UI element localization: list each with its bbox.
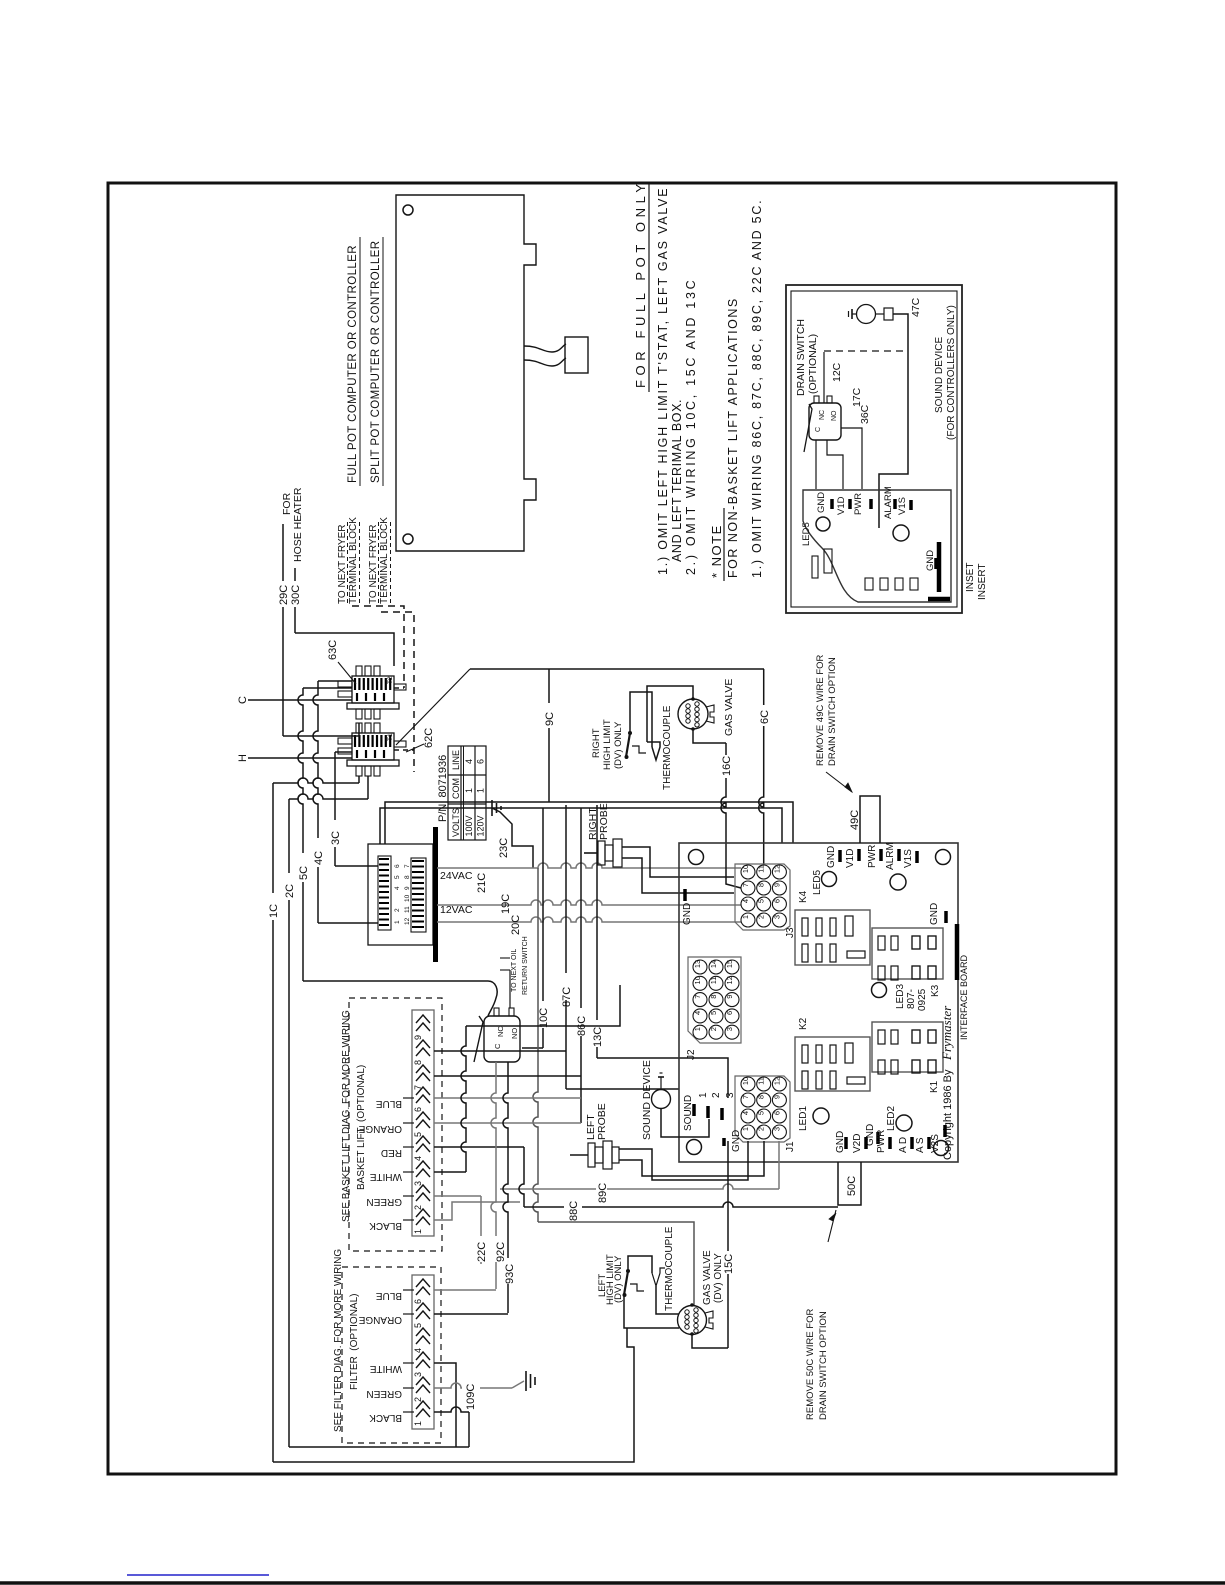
svg-text:9: 9 <box>725 995 734 999</box>
svg-text:HIGH LIMIT: HIGH LIMIT <box>602 719 613 770</box>
board top pad PWR <box>879 849 883 861</box>
svg-text:7: 7 <box>741 883 750 887</box>
svg-text:LED2: LED2 <box>886 1106 897 1131</box>
svg-text:20C: 20C <box>510 915 522 935</box>
wire WHITE riser <box>461 1026 466 1172</box>
svg-text:1: 1 <box>413 1421 423 1426</box>
svg-text:10C: 10C <box>538 1008 550 1028</box>
svg-text:NO: NO <box>510 1028 519 1039</box>
svg-text:2: 2 <box>711 1092 722 1098</box>
svg-text:8: 8 <box>709 995 718 999</box>
svg-text:2: 2 <box>709 1027 718 1031</box>
inset dashed option wire <box>824 350 908 352</box>
svg-text:9: 9 <box>772 1095 781 1099</box>
svg-text:12: 12 <box>772 1077 781 1085</box>
pad SOUND 2 <box>706 1106 710 1118</box>
board top pad V1D <box>857 849 861 861</box>
relay K2 <box>795 1037 870 1091</box>
svg-text:K3: K3 <box>930 984 941 997</box>
wire 13C <box>596 805 598 1058</box>
svg-text:0925: 0925 <box>917 988 928 1011</box>
svg-text:NC: NC <box>496 1026 505 1037</box>
filter wire WHITE drop <box>434 1363 456 1447</box>
svg-text:C: C <box>237 696 249 704</box>
svg-text:5: 5 <box>757 1111 766 1115</box>
svg-text:2: 2 <box>757 915 766 919</box>
svg-text:6C: 6C <box>759 710 771 724</box>
svg-text:V1S: V1S <box>897 497 908 515</box>
svg-text:6: 6 <box>476 759 486 764</box>
svg-text:19C: 19C <box>500 894 512 914</box>
basket wire pin7 to 86C <box>434 1075 581 1077</box>
pad GND near K1 <box>876 1132 880 1144</box>
LED circle top right <box>890 874 906 890</box>
interface board outline <box>679 843 958 1162</box>
transformer primary winding <box>378 856 391 930</box>
terminal block 63C <box>356 666 362 676</box>
svg-text:1.) OMIT WIRING 86C, 87C, 88C,: 1.) OMIT WIRING 86C, 87C, 88C, 89C, 22C … <box>750 199 764 578</box>
wire 93C <box>503 1062 508 1313</box>
right gas valve <box>678 699 708 729</box>
svg-text:9: 9 <box>404 886 411 890</box>
inset LED5 circle <box>816 517 830 531</box>
svg-text:Frymaster: Frymaster <box>939 1005 954 1061</box>
svg-text:49C: 49C <box>849 810 861 830</box>
svg-text:BLUE: BLUE <box>376 1290 402 1301</box>
svg-text:1: 1 <box>394 920 401 924</box>
svg-text:SEE BASKET LIFT DIAG. FOR MORE: SEE BASKET LIFT DIAG. FOR MORE WIRING <box>341 1010 352 1222</box>
svg-text:3: 3 <box>725 1027 734 1031</box>
svg-text:6: 6 <box>772 1111 781 1115</box>
svg-text:12VAC: 12VAC <box>440 904 473 916</box>
inset pad V1D <box>848 499 852 509</box>
svg-text:DRAIN SWITCH OPTION: DRAIN SWITCH OPTION <box>818 1311 829 1420</box>
svg-text:14: 14 <box>709 960 718 968</box>
transformer mounting bar <box>433 827 438 962</box>
svg-text:ORANGE: ORANGE <box>358 1314 402 1325</box>
wire 10C <box>542 808 544 1048</box>
svg-text:63C: 63C <box>327 640 339 660</box>
svg-text:DRAIN SWITCH: DRAIN SWITCH <box>795 319 807 396</box>
svg-text:TERMINAL BLOCK: TERMINAL BLOCK <box>348 517 359 604</box>
svg-text:T2: T2 <box>387 676 394 684</box>
inset sound component <box>875 313 884 315</box>
board hole top-right <box>936 850 951 865</box>
wire 87C <box>565 805 567 1089</box>
wire to oil switch pin <box>509 970 511 1008</box>
board top pad ALRM <box>897 849 901 861</box>
svg-text:11: 11 <box>404 906 411 913</box>
svg-text:5: 5 <box>413 1132 423 1137</box>
svg-text:LED5: LED5 <box>801 522 812 546</box>
terminal block 62C <box>356 723 362 733</box>
basket pin 3 <box>416 1161 430 1169</box>
svg-text:23C: 23C <box>498 838 510 858</box>
svg-text:2: 2 <box>757 1127 766 1131</box>
inset pad ALARM <box>893 499 897 509</box>
basket pin 7 <box>416 1065 430 1073</box>
wire 9C/6C top run <box>470 668 764 670</box>
left probe wire 2 <box>619 1141 764 1176</box>
wire 5C to oil switch <box>303 981 497 1016</box>
svg-text:3C: 3C <box>330 831 342 845</box>
inset drain microswitch <box>809 403 841 440</box>
wire 19C (12VAC) <box>437 900 741 905</box>
svg-text:PWR: PWR <box>876 1130 887 1153</box>
svg-text:87C: 87C <box>561 987 573 1007</box>
svg-text:(OPTIONAL): (OPTIONAL) <box>807 334 819 394</box>
left probe wire 1 <box>619 1141 748 1180</box>
svg-text:1: 1 <box>698 1092 709 1098</box>
wire 88C <box>524 1202 838 1207</box>
svg-text:1: 1 <box>693 1027 702 1031</box>
svg-text:GND: GND <box>731 1130 742 1152</box>
svg-text:PROBE: PROBE <box>598 803 610 840</box>
board bottom pad V2D <box>864 1137 868 1149</box>
relay K3 <box>872 928 943 979</box>
wire left high limit to valve <box>624 1295 679 1328</box>
svg-text:92C: 92C <box>495 1242 507 1262</box>
svg-text:LED5: LED5 <box>812 870 823 895</box>
svg-text:COM: COM <box>451 778 461 799</box>
svg-text:13C: 13C <box>592 1027 604 1047</box>
svg-text:GND: GND <box>816 492 827 513</box>
sound device circle <box>652 1090 671 1109</box>
svg-text:ORANGE: ORANGE <box>358 1123 402 1134</box>
basket wire pin8 to 87C <box>434 1050 566 1052</box>
connector J2 <box>688 957 741 1043</box>
wire 9C <box>548 669 550 802</box>
inset pad GND 2 <box>934 558 938 569</box>
svg-text:1: 1 <box>741 915 750 919</box>
ground symbol 109C <box>512 1381 524 1388</box>
svg-text:12: 12 <box>772 865 781 873</box>
wire 49C staple <box>860 796 880 843</box>
svg-text:6: 6 <box>413 1299 423 1304</box>
oil switch lever <box>474 1016 483 1062</box>
right probe wire 1 <box>622 847 734 877</box>
svg-text:T1: T1 <box>387 733 394 741</box>
svg-text:88C: 88C <box>568 1201 580 1221</box>
wire 86C <box>580 808 582 1123</box>
board right edge bar <box>955 924 960 980</box>
wire to left gas valve (via 1222) <box>533 868 538 1222</box>
svg-text:TO NEXT FRYER: TO NEXT FRYER <box>368 525 379 604</box>
transformer outline <box>368 844 433 945</box>
inset component b <box>824 549 832 573</box>
wire 4C to transformer <box>318 922 368 924</box>
svg-text:Copyright 1986 By: Copyright 1986 By <box>942 1069 954 1160</box>
svg-text:5: 5 <box>757 899 766 903</box>
svg-text:BLUE: BLUE <box>376 1098 402 1109</box>
svg-text:FILTER (OPTIONAL): FILTER (OPTIONAL) <box>349 1294 360 1391</box>
LED5 circle <box>822 872 837 887</box>
basket pin 1 <box>416 1209 430 1217</box>
wire 47C <box>893 314 908 351</box>
wire 4C <box>313 681 318 923</box>
svg-text:22C: 22C <box>476 1242 488 1262</box>
wire pair to J3 (upper) <box>385 802 793 844</box>
filter connector <box>412 1275 434 1429</box>
svg-text:6: 6 <box>772 899 781 903</box>
svg-text:4: 4 <box>413 1348 423 1353</box>
wire 29C <box>282 524 284 736</box>
thermocouple right symbol <box>647 742 660 760</box>
filter pin 1 <box>416 1401 430 1409</box>
svg-text:89C: 89C <box>597 1183 609 1203</box>
svg-text:4: 4 <box>413 1156 423 1161</box>
svg-text:GND: GND <box>835 1131 846 1153</box>
LED1 circle <box>813 1108 829 1124</box>
svg-text:3: 3 <box>413 1181 423 1186</box>
right probe symbol <box>584 852 598 854</box>
svg-text:INSET: INSET <box>965 563 976 592</box>
wire 3C top stub <box>335 751 352 753</box>
inset component a <box>812 556 818 578</box>
footer link underline <box>127 1574 269 1576</box>
basket pin 6 <box>416 1087 430 1095</box>
wire 92C <box>491 1062 496 1289</box>
svg-text:V2S: V2S <box>930 1134 941 1153</box>
board bottom pad A S <box>927 1137 931 1149</box>
svg-text:REMOVE 49C WIRE FOR: REMOVE 49C WIRE FOR <box>815 654 826 766</box>
svg-text:V2D: V2D <box>852 1134 863 1153</box>
svg-text:K4: K4 <box>798 890 809 903</box>
oil return stub 1 <box>500 957 510 959</box>
basket pin 8 <box>416 1040 430 1048</box>
svg-text:LINE: LINE <box>451 750 461 770</box>
wire drain pin to board 3 <box>841 428 862 489</box>
inset outer box <box>786 285 962 613</box>
svg-text:100V: 100V <box>464 815 474 836</box>
dashed stub relay 63C <box>394 687 404 689</box>
svg-text:J2: J2 <box>686 1049 697 1060</box>
oil return stub 2 <box>500 969 510 971</box>
basket pin 4 <box>416 1136 430 1144</box>
filter pin 6 <box>416 1279 430 1287</box>
svg-text:8: 8 <box>757 1095 766 1099</box>
svg-text:9: 9 <box>413 1035 423 1040</box>
basket pin 5 <box>416 1112 430 1120</box>
border frame <box>108 183 1116 1474</box>
svg-text:* NOTE: * NOTE <box>709 524 724 578</box>
basket pin 9 <box>416 1015 430 1023</box>
svg-text:V1D: V1D <box>845 849 856 868</box>
inset sound ground <box>852 313 857 315</box>
inset thick bar vertical <box>937 542 942 592</box>
svg-text:VOLTS: VOLTS <box>451 808 461 837</box>
svg-text:15: 15 <box>725 960 734 968</box>
svg-text:ALARM: ALARM <box>883 486 894 519</box>
sound device ground <box>660 1077 662 1090</box>
svg-text:RIGHT: RIGHT <box>591 728 602 758</box>
svg-text:(DV) ONLY: (DV) ONLY <box>613 1255 624 1303</box>
svg-text:THERMOCOUPLE: THERMOCOUPLE <box>662 705 673 790</box>
svg-text:K2: K2 <box>798 1017 809 1030</box>
basket wire WHITE <box>434 1171 466 1173</box>
svg-text:6: 6 <box>725 1011 734 1015</box>
pad SOUND 3 <box>720 1108 724 1120</box>
wire drain pin to board 2 <box>827 440 843 489</box>
basket lift connector <box>412 1010 434 1236</box>
board bottom pad GND <box>844 1137 848 1149</box>
svg-text:12: 12 <box>725 976 734 984</box>
wire 30C to relay 63C <box>295 633 394 666</box>
arrow 50C <box>828 1210 836 1242</box>
svg-text:GAS VALVE: GAS VALVE <box>702 1250 713 1305</box>
wire 29C feed to 62C <box>283 723 359 736</box>
wire 2C <box>288 799 290 1447</box>
filter dashed box <box>342 1267 441 1443</box>
svg-text:V1D: V1D <box>836 496 847 515</box>
inset pad PWR <box>869 499 873 509</box>
basket pin 2 <box>416 1185 430 1193</box>
computer mounting hole bottom <box>403 534 413 544</box>
svg-text:INSERT: INSERT <box>977 564 988 601</box>
wire drain sw top <box>823 352 825 403</box>
basket wire ORANGE <box>434 1122 581 1124</box>
wire 15C <box>727 1141 729 1348</box>
left probe symbol <box>570 1154 588 1156</box>
svg-text:50C: 50C <box>846 1176 858 1196</box>
wire 30C <box>294 568 296 633</box>
svg-text:BLACK: BLACK <box>369 1412 402 1423</box>
filter wire BLACK drop <box>434 1407 469 1412</box>
connector J1 <box>735 1076 790 1142</box>
svg-text:17C: 17C <box>851 387 863 407</box>
svg-text:TERMINAL BLOCK: TERMINAL BLOCK <box>379 517 390 604</box>
relay K1 <box>872 1022 943 1072</box>
svg-text:TO NEXT FRYER: TO NEXT FRYER <box>337 525 348 604</box>
svg-text:GND: GND <box>682 903 693 925</box>
ground symbol 23C <box>491 800 493 816</box>
left gas valve <box>678 1306 707 1335</box>
svg-text:SOUND DEVICE: SOUND DEVICE <box>934 337 945 413</box>
svg-text:SEE FILTER DIAG. FOR MORE WIRI: SEE FILTER DIAG. FOR MORE WIRING <box>333 1249 344 1432</box>
svg-text:10: 10 <box>693 976 702 984</box>
wire sound device to pad 2 <box>661 1109 709 1137</box>
wire 4C top stub <box>318 680 352 682</box>
svg-text:(DV) ONLY: (DV) ONLY <box>613 721 624 769</box>
inset LED circle 2 <box>893 525 909 541</box>
inset pad GND <box>830 499 834 509</box>
svg-text:4: 4 <box>394 886 401 890</box>
wire 23C to ground <box>492 808 533 868</box>
svg-text:GND: GND <box>925 550 936 571</box>
svg-text:PWR: PWR <box>867 845 878 868</box>
svg-text:NC: NC <box>819 410 826 420</box>
svg-text:4: 4 <box>693 1011 702 1015</box>
wire thermocouple to valve <box>647 686 693 742</box>
svg-text:1: 1 <box>413 1229 423 1234</box>
right probe wire 2 <box>622 858 734 893</box>
board bottom pad V2S <box>943 1125 947 1137</box>
svg-text:TO NEXT OIL: TO NEXT OIL <box>511 949 518 992</box>
svg-text:13: 13 <box>693 960 702 968</box>
svg-text:REMOVE 50C WIRE FOR: REMOVE 50C WIRE FOR <box>805 1308 816 1420</box>
computer mounting hole top <box>403 205 413 215</box>
thermocouple left symbol <box>652 1268 665 1286</box>
dashed run to terminal block 2 <box>381 612 414 772</box>
svg-text:(FOR CONTROLLERS ONLY): (FOR CONTROLLERS ONLY) <box>946 305 957 440</box>
svg-text:C: C <box>815 427 822 432</box>
wire 20C <box>437 917 741 922</box>
svg-text:BLACK: BLACK <box>369 1220 402 1231</box>
basket lift dashed box <box>349 998 442 1251</box>
svg-text:ALRM: ALRM <box>885 842 896 870</box>
svg-text:SOUND DEVICE: SOUND DEVICE <box>641 1060 653 1140</box>
wire valve to 16C <box>693 729 726 743</box>
wire 21C (24VAC) <box>437 863 741 868</box>
svg-text:8: 8 <box>757 883 766 887</box>
board top pad GND <box>838 850 842 862</box>
svg-text:21C: 21C <box>476 873 488 893</box>
svg-text:2: 2 <box>413 1397 423 1402</box>
svg-text:2: 2 <box>394 908 401 912</box>
inset inner box <box>791 291 957 607</box>
svg-text:7: 7 <box>404 864 411 868</box>
svg-text:5: 5 <box>394 875 401 879</box>
svg-text:9C: 9C <box>544 712 556 726</box>
leader 63C <box>338 662 356 684</box>
svg-text:6: 6 <box>413 1107 423 1112</box>
filter wire GREEN 109C <box>434 1383 512 1388</box>
inset pc board outline <box>803 490 951 602</box>
svg-text:36C: 36C <box>859 404 871 424</box>
svg-text:LED1: LED1 <box>798 1106 809 1131</box>
svg-text:3: 3 <box>772 915 781 919</box>
svg-text:AND LEFT TERIMAL BOX.: AND LEFT TERIMAL BOX. <box>670 399 684 562</box>
svg-text:3: 3 <box>413 1372 423 1377</box>
svg-text:7: 7 <box>741 1095 750 1099</box>
relay K4 <box>795 910 870 965</box>
wire 5C <box>298 688 303 981</box>
inset bottom squares <box>865 578 873 590</box>
dashed stub relay 62C <box>394 749 414 751</box>
svg-text:PWR: PWR <box>853 493 864 515</box>
wire 2C bottom run <box>289 1446 469 1448</box>
leader 62C <box>406 744 424 752</box>
svg-text:5: 5 <box>709 1011 718 1015</box>
svg-text:47C: 47C <box>910 297 922 317</box>
svg-text:INTERFACE BOARD: INTERFACE BOARD <box>959 954 969 1040</box>
svg-text:4: 4 <box>741 899 750 903</box>
computer harness connector <box>565 337 588 373</box>
wire 2C top run <box>289 794 368 799</box>
svg-text:11: 11 <box>757 865 766 873</box>
svg-text:1: 1 <box>741 1127 750 1131</box>
svg-text:FOR FULL POT ONLY: FOR FULL POT ONLY <box>633 179 648 388</box>
wire 87C bottom run <box>566 1088 679 1090</box>
svg-text:4: 4 <box>741 1111 750 1115</box>
wire 22C <box>480 1196 482 1264</box>
svg-text:THERMOCOUPLE: THERMOCOUPLE <box>664 1226 675 1311</box>
svg-text:6: 6 <box>394 864 401 868</box>
wire pair to J3 (lower) <box>380 808 782 844</box>
wire 50C staple <box>838 1162 861 1205</box>
wire left thermocouple to valve <box>656 1286 679 1314</box>
filter pin 2 <box>416 1377 430 1385</box>
svg-text:2C: 2C <box>284 884 296 898</box>
left high limit loop <box>628 1256 652 1273</box>
svg-text:30C: 30C <box>290 585 302 605</box>
wire 1C <box>272 783 274 1462</box>
wire 6C <box>759 669 764 865</box>
wire 13C run to sound <box>597 1058 728 1098</box>
LED2 circle <box>896 1115 912 1131</box>
svg-text:GREEN: GREEN <box>366 1388 402 1399</box>
svg-text:GAS VALVE: GAS VALVE <box>723 679 735 736</box>
